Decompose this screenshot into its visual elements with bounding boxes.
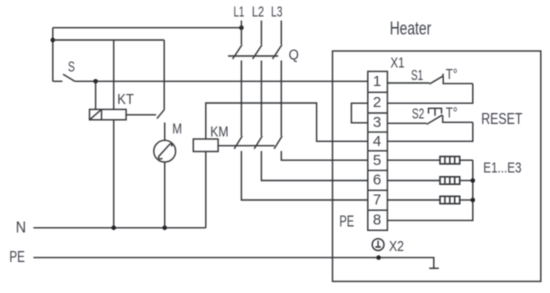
wire: terminal 3 to safety thermostat S2 <box>387 122 426 124</box>
wire: E3 to common bus <box>460 199 473 201</box>
wire: L3 drop <box>280 21 282 45</box>
manual reset symbol of S2 <box>429 108 442 116</box>
wire: second feed to KT contact <box>53 39 164 41</box>
wire: branch down to KT coil <box>95 81 97 109</box>
svg-text:Heater: Heater <box>390 17 432 38</box>
breaker Q pole 3 blade <box>273 45 282 59</box>
svg-text:M: M <box>172 120 182 137</box>
svg-text:KM: KM <box>210 123 228 140</box>
heating element E2 <box>440 177 460 184</box>
svg-text:8: 8 <box>373 212 381 229</box>
earth terminal X2 <box>372 239 384 251</box>
safety thermostat contact S2 <box>427 115 443 124</box>
KM linkage line from coil <box>218 145 275 147</box>
wire: left vertical drop to switch S <box>52 28 54 82</box>
heating element E1 <box>440 157 460 164</box>
wire: KM pole 2 to terminal X1:6 <box>261 151 367 181</box>
wire: L1 drop <box>240 21 242 45</box>
wire: terminal 7 to element E3 <box>387 199 440 201</box>
wire: E1 to common bus <box>460 159 473 161</box>
breaker Q pole 2 blade <box>253 45 262 59</box>
wire: KT coil right side to contact <box>126 114 156 116</box>
wire: terminal 5 to element E1 <box>387 159 440 161</box>
wire: L2 drop <box>260 21 262 45</box>
svg-text:RESET: RESET <box>481 111 522 128</box>
svg-text:2: 2 <box>373 94 381 111</box>
KT contact <box>163 40 165 110</box>
contactor coil KM <box>193 139 218 152</box>
svg-text:L2: L2 <box>252 4 264 21</box>
junction dot E3/bus <box>471 198 476 203</box>
junction dot at KT coil branch <box>93 79 98 84</box>
wire: KM pole 1 to terminal X1:7 <box>241 151 367 200</box>
svg-text:PE: PE <box>9 249 25 266</box>
wire: E2 to common bus <box>460 180 473 182</box>
contactor KM pole 3 blade <box>274 136 282 149</box>
svg-text:PE: PE <box>339 213 354 230</box>
chassis ground bar <box>429 267 439 269</box>
element common bus to terminal 8 <box>387 160 472 220</box>
svg-text:E1...E3: E1...E3 <box>483 161 521 177</box>
wire: S2 return to terminal 4 <box>387 122 472 141</box>
contactor KM pole 2 blade <box>254 136 262 149</box>
wire: phase 1 between Q and KM <box>240 61 242 137</box>
junction dot E2/bus <box>471 178 476 183</box>
breaker Q linkage bar <box>228 55 278 57</box>
svg-text:1: 1 <box>373 73 381 90</box>
thermostat contact S1 <box>430 74 444 84</box>
motor M <box>154 140 176 162</box>
wire: KT coil bottom to neutral <box>113 120 115 228</box>
heating element E3 <box>440 196 460 203</box>
junction dot on L1 <box>239 25 244 30</box>
svg-text:3: 3 <box>373 114 381 131</box>
wire: phase 2 between Q and KM <box>260 61 262 137</box>
svg-text:5: 5 <box>373 152 381 169</box>
jumper between terminals 2 and 3 <box>351 103 367 123</box>
junction node on left drop <box>51 38 56 43</box>
svg-text:T°: T° <box>446 105 458 122</box>
wire: KM coil feed from terminal X1:4 <box>206 103 368 141</box>
svg-text:S1: S1 <box>411 67 423 84</box>
svg-text:KT: KT <box>117 91 134 108</box>
wire: S output to terminal X1:1 <box>75 80 368 82</box>
wire: KM coil bottom to neutral <box>205 152 207 228</box>
time relay coil KT <box>90 109 127 119</box>
wire: motor to neutral <box>164 162 166 228</box>
switch S <box>53 80 63 82</box>
svg-text:S: S <box>68 60 75 76</box>
wire: contact to motor M <box>164 123 166 141</box>
breaker Q pole 1 blade <box>233 45 242 59</box>
junction dot M/neutral <box>162 226 167 231</box>
svg-text:6: 6 <box>373 172 381 189</box>
wire: feed from second line down to KT coil <box>113 40 115 109</box>
junction dot below X2 <box>376 255 381 260</box>
wire: terminal 1 to thermostat S1 <box>387 82 429 84</box>
svg-text:S2: S2 <box>412 106 424 123</box>
svg-text:T°: T° <box>446 66 458 83</box>
wire: S1 return to terminal 2 <box>387 84 472 104</box>
wire: KM pole 3 to terminal X1:5 <box>281 151 368 160</box>
wire: terminal 6 to element E2 <box>387 180 440 182</box>
svg-text:L1: L1 <box>234 4 245 21</box>
wire: phase 3 between Q and KM <box>280 61 282 137</box>
wire: top feed tap to L1 <box>53 27 242 29</box>
svg-text:N: N <box>16 220 26 237</box>
protective earth line PE <box>33 258 433 269</box>
neutral line N <box>33 227 205 229</box>
svg-text:X2: X2 <box>389 238 404 255</box>
svg-text:4: 4 <box>373 133 381 150</box>
contactor KM pole 1 blade <box>234 136 242 149</box>
svg-text:L3: L3 <box>271 4 283 21</box>
terminal block X1 <box>368 71 388 230</box>
svg-text:Q: Q <box>289 46 299 63</box>
svg-text:7: 7 <box>373 192 381 209</box>
junction dot KT/neutral <box>111 226 116 231</box>
heater enclosure box <box>333 51 541 281</box>
svg-text:X1: X1 <box>390 55 404 72</box>
